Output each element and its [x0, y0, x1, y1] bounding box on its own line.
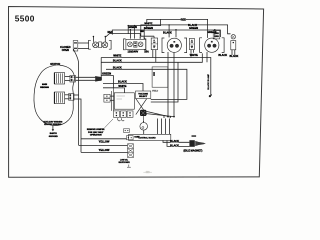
wire board leads a [158, 119, 162, 135]
node VS terminal dot1 [163, 116, 164, 117]
stator outline [34, 65, 74, 125]
switch S1 run/idle box [73, 41, 78, 51]
wire S1 terminal B to red [105, 34, 140, 43]
wire D1 down lead2 [173, 52, 175, 116]
wire riser recept240 t2 [134, 26, 136, 39]
label CONTROL BOARD [138, 136, 156, 139]
switch S1 left bracket [89, 40, 91, 49]
label WHITE lower [118, 85, 126, 88]
label YELLOW 1 [99, 141, 110, 144]
wire stator main out2 [76, 79, 102, 81]
label above magnet [192, 135, 197, 137]
wire VS vertical pair [111, 88, 113, 111]
svg-text:FOR 120V ONLY: FOR 120V ONLY [88, 132, 104, 134]
wire VS pair stub2 [110, 99, 114, 101]
svg-text:BLACK: BLACK [113, 60, 122, 63]
wire riser duplex1 right [175, 30, 177, 38]
node VS terminal dot2 [170, 116, 171, 117]
connector inline main [95, 76, 102, 82]
wire black top run [141, 25, 231, 36]
title 5500 [15, 13, 35, 23]
svg-text:BLACK: BLACK [170, 140, 179, 143]
page number faint [143, 172, 152, 174]
label GREEN mid-left [102, 73, 111, 76]
node charge terminal [209, 94, 212, 97]
breaker CB2 dots [191, 40, 192, 48]
voltage select label box [136, 91, 151, 99]
junction box green [213, 31, 220, 39]
wire L2 out1 yellow [74, 94, 79, 96]
receptacle 240V terminal L [127, 42, 132, 47]
wire rotor to meter [142, 116, 144, 123]
wire white mid [101, 58, 211, 96]
svg-text:OPEN: OPEN [62, 49, 69, 52]
svg-text:YELLOW: YELLOW [99, 141, 110, 144]
wire riser duplex2 left [207, 36, 209, 39]
receptacle 240V center bar [134, 42, 137, 48]
border frame [9, 7, 264, 178]
svg-text:BLACK: BLACK [163, 32, 172, 35]
label GREEN mid [144, 27, 153, 30]
label GREEN receptacle2 [189, 27, 198, 30]
label MAIN WINDING [40, 83, 49, 89]
svg-text:SHUTDOWN: SHUTDOWN [118, 162, 130, 164]
svg-text:BLACK: BLACK [188, 24, 197, 27]
connector stator main [70, 75, 76, 82]
wire black mid2 [106, 69, 187, 99]
svg-text:WHITE: WHITE [113, 55, 121, 58]
wire CB3 down stub2 [234, 50, 236, 55]
label WHITE mid [113, 55, 121, 58]
wire black mid1 [101, 53, 202, 62]
label EARTH GROUND [49, 132, 58, 138]
wire white short [128, 19, 160, 25]
wire L1 lead2 [65, 80, 70, 82]
receptacle D1 slot L [170, 44, 173, 47]
switch S1 closed/open label [60, 46, 71, 52]
wire VS to terminal2 [146, 114, 174, 117]
wire CB1 down stub2 [155, 50, 157, 63]
label BLACK magnet1 [170, 140, 179, 143]
svg-text:BLACK: BLACK [218, 54, 227, 57]
wire riser duplex2 mid [214, 30, 216, 38]
node S1 stub dot B [105, 36, 107, 38]
low oil arrow [127, 165, 131, 168]
svg-text:LOW OIL: LOW OIL [120, 159, 129, 161]
label vertical charge lead [207, 73, 210, 89]
svg-text:GREEN: GREEN [102, 73, 111, 76]
svg-text:WHITE: WHITE [118, 85, 126, 88]
switch S1 center block [99, 42, 102, 48]
enclosure box [152, 67, 168, 87]
label BLACK mid1 [113, 60, 122, 63]
svg-text:(IDLE MAGNET): (IDLE MAGNET) [183, 150, 202, 153]
svg-text:REMOVE JUMPER: REMOVE JUMPER [87, 129, 105, 131]
svg-text:5500: 5500 [15, 13, 35, 23]
label conn [134, 137, 140, 139]
svg-text:SELECT: SELECT [139, 96, 148, 98]
node D1 lead2 terminal [173, 116, 175, 118]
wire white lower [103, 88, 125, 93]
receptacle 240V body [126, 39, 146, 49]
wire L2 out2 yellow [74, 99, 81, 152]
svg-text:—122—: —122— [143, 172, 152, 174]
wire VS to terminal1 [146, 111, 168, 116]
receptacle D2 ground slot [211, 41, 213, 43]
svg-text:GRN: GRN [214, 36, 219, 38]
breaker CB2 body [189, 38, 194, 49]
receptacle D1 ground slot [173, 41, 175, 43]
svg-text:120/240V: 120/240V [127, 51, 138, 54]
label BLACK top [188, 24, 197, 27]
label BLACK bottom D2 [218, 54, 227, 57]
svg-text:BLACK: BLACK [170, 145, 179, 148]
svg-text:GREEN: GREEN [189, 27, 198, 30]
svg-text:FIELD: FIELD [152, 91, 158, 93]
svg-text:WINDING: WINDING [40, 87, 49, 89]
wire VS pair stub1 [110, 95, 114, 97]
breaker CB3 terminal [231, 35, 235, 39]
label GREEN receptacle2b [207, 31, 216, 34]
wire S1 terminal A stub [92, 37, 94, 42]
wire S1 trigger down [73, 49, 78, 145]
label BLACK mid2 [113, 66, 122, 69]
breaker CB1 dots [153, 40, 154, 48]
svg-text:BLACK: BLACK [230, 55, 239, 58]
switch S1 terminal A [93, 42, 99, 48]
label RED [181, 18, 186, 21]
svg-text:RED: RED [181, 18, 186, 21]
label CB1 rating [144, 50, 149, 53]
svg-text:GRN: GRN [214, 33, 219, 35]
wire S1 box to bracket top [78, 42, 89, 44]
wire black to magnet 2 [167, 140, 189, 146]
wire switch return [151, 62, 178, 102]
label low oil sensor [118, 159, 130, 163]
label YELLOW 2 [99, 149, 110, 152]
receptacle D2 left bracket [200, 38, 202, 53]
label STATOR [50, 63, 60, 66]
label RED mid [107, 31, 144, 34]
label auxiliary winding [43, 121, 63, 126]
hour meter [140, 121, 148, 130]
receptacle 240V right bracket [144, 39, 146, 50]
receptacle D1 left bracket [162, 38, 164, 53]
connector VS upper pair [104, 94, 110, 102]
receptacle D1 right bracket [184, 38, 186, 53]
label WHITE bottom CB2 [190, 54, 198, 57]
wire CB1 top stub [141, 36, 154, 38]
wire green mid [101, 76, 113, 88]
receptacle 240V terminal R [138, 42, 143, 47]
svg-text:15A: 15A [144, 50, 149, 53]
wire S1 box to bracket bot [78, 47, 89, 49]
voltage select body box [114, 93, 134, 109]
svg-text:WHITE: WHITE [144, 23, 152, 26]
wire yellow top [81, 138, 127, 140]
switch S1 terminal B [102, 42, 108, 48]
wire bundle left riser [100, 58, 102, 81]
receptacle D2 right bracket [222, 38, 224, 53]
label below enclosure [152, 91, 158, 93]
wire black to magnet 1 [163, 140, 189, 142]
svg-text:GROUND: GROUND [49, 136, 58, 138]
label BLACK bottom CB3 [230, 55, 239, 58]
wire riser duplex1 left [168, 25, 170, 38]
wire CB1 down stub1 [152, 50, 154, 58]
label IDLE MAGNET [183, 150, 202, 153]
switch S1 right bracket [109, 40, 111, 49]
wire CB2 down stub2 [193, 50, 195, 53]
label BLACK lower [118, 81, 127, 84]
wire board leads b [166, 119, 170, 135]
remove jumper note [87, 129, 105, 136]
svg-text:GREEN: GREEN [144, 27, 153, 30]
connector stator aux [69, 94, 74, 101]
svg-text:RED: RED [107, 31, 112, 34]
control board box [129, 134, 171, 140]
receptacle D1 slot R [175, 44, 178, 47]
breaker CB3 dot [233, 42, 234, 43]
receptacle D1 face [167, 38, 181, 52]
wire red top run [144, 19, 207, 38]
coil L2 excitation winding [54, 92, 64, 104]
wire yellow bot [81, 151, 128, 153]
svg-text:BLACK: BLACK [118, 81, 127, 84]
label BLACK magnet2 [170, 145, 179, 148]
jumper hooks [118, 118, 125, 121]
svg-text:CLOSED: CLOSED [60, 46, 71, 49]
remove jumper leader [105, 119, 114, 128]
svg-text:STATOR: STATOR [50, 63, 60, 66]
label conn right [0, 0, 1, 1]
node D1 lead1 terminal [167, 116, 169, 118]
wire L2 lead2 [65, 98, 69, 100]
idle magnet solenoid [189, 140, 205, 147]
label 240V rating [127, 51, 139, 54]
wire CB3 down stub1 [231, 50, 233, 55]
voltage select rotor [140, 110, 146, 116]
svg-text:CONN: CONN [134, 137, 140, 139]
svg-text:YELLOW: YELLOW [99, 149, 110, 152]
node S1 stub dot A [93, 36, 95, 38]
wire yellow mid [79, 144, 128, 146]
wire riser recept240 t1 [129, 30, 131, 39]
svg-text:BLACK: BLACK [113, 66, 122, 69]
breaker CB3 body [231, 41, 236, 50]
connector yellow pair [127, 136, 134, 140]
receptacle 240V left bracket [124, 39, 126, 50]
label GREEN left [128, 26, 137, 29]
wire VS cross diag1 [136, 99, 147, 115]
wire riser red up [127, 26, 129, 34]
connector HM pair [124, 129, 130, 133]
receptacle D2 slot R [213, 44, 216, 47]
wire L2 lead1 [65, 94, 69, 96]
ground arrow [52, 126, 54, 132]
node junction dots top [128, 24, 216, 38]
svg-text:GREEN: GREEN [128, 26, 137, 29]
wire CB2 down stub1 [190, 50, 192, 58]
svg-text:WHITE: WHITE [190, 54, 198, 57]
receptacle D2 face [205, 38, 219, 52]
wire stator main out1 [76, 76, 102, 78]
connector stack lower [128, 144, 134, 158]
wire VS cross diag2 [136, 99, 147, 115]
connector row lower [114, 111, 134, 117]
coil L1 main winding [54, 73, 64, 84]
wire L1 lead1 [65, 76, 70, 78]
svg-text:EXCITER WINDING: EXCITER WINDING [44, 124, 62, 126]
breaker CB1 body [151, 38, 157, 50]
wire D1 down lead1 [167, 52, 169, 116]
wire meter to board [143, 130, 145, 134]
wire black lower1 [103, 84, 143, 92]
wire D2 down lead [206, 52, 208, 62]
label WHITE top [144, 23, 152, 26]
label BLACK receptacle1 [163, 32, 172, 35]
receptacle D2 slot L [207, 44, 210, 47]
wire green top run [112, 30, 220, 37]
